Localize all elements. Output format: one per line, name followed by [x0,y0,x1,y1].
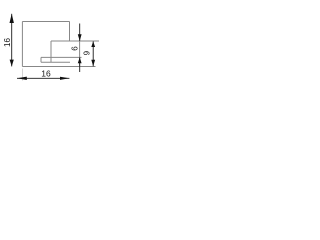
svg-text:6: 6 [71,46,80,51]
svg-text:16: 16 [3,38,12,47]
svg-text:9: 9 [83,50,92,55]
svg-text:16: 16 [41,69,51,79]
